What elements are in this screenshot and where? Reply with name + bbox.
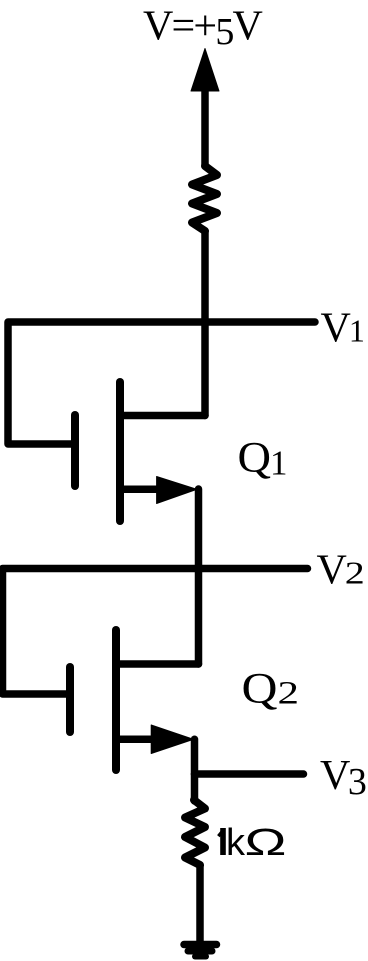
transistor Q2 channel bar bbox=[112, 630, 120, 770]
label V1 bbox=[321, 306, 365, 352]
wire Q1 source to Q2 drain bbox=[195, 489, 203, 664]
transistor Q1 gate bar bbox=[71, 415, 79, 486]
svg-text:2: 2 bbox=[345, 555, 365, 591]
wire resistor R2 to ground bbox=[196, 865, 204, 942]
node V3 wire bbox=[195, 770, 304, 778]
svg-text:Ω: Ω bbox=[245, 822, 287, 864]
label V2 bbox=[317, 548, 365, 594]
resistor R2 1k ohm bbox=[185, 800, 205, 865]
svg-text:Q: Q bbox=[242, 666, 278, 713]
transistor Q2 drain lead bbox=[116, 660, 199, 668]
svg-text:V: V bbox=[317, 548, 347, 594]
svg-text:k: k bbox=[226, 822, 246, 864]
resistor R1 (pull-up) bbox=[192, 166, 217, 231]
node V2 wire and Q2 gate feedback bbox=[3, 569, 308, 695]
wire Q2 source to V3 node bbox=[191, 739, 199, 774]
ground bbox=[184, 945, 217, 957]
svg-text:V1: V1 bbox=[321, 306, 365, 352]
transistor Q2 source lead with arrow bbox=[116, 725, 194, 754]
svg-text:1: 1 bbox=[270, 444, 288, 483]
svg-text:2: 2 bbox=[278, 676, 300, 712]
node V1 wire and Q1 gate feedback bbox=[8, 322, 315, 444]
supply arrow bbox=[191, 49, 219, 166]
wire V3 node to resistor R2 bbox=[191, 774, 199, 801]
svg-text:V=+5V: V=+5V bbox=[143, 4, 263, 54]
transistor Q1 channel bar bbox=[116, 382, 124, 521]
transistor Q1 drain lead bbox=[120, 412, 205, 420]
transistor Q1 source lead with arrow bbox=[120, 477, 197, 504]
wire resistor to Q1 drain bbox=[201, 231, 209, 416]
label Q2 bbox=[242, 666, 300, 713]
supply label V=+5V bbox=[143, 4, 263, 54]
label V3 bbox=[320, 753, 367, 803]
label Q1 bbox=[238, 435, 288, 483]
transistor Q2 gate bar bbox=[66, 667, 74, 732]
svg-text:Q: Q bbox=[238, 435, 272, 482]
label 1k ohm bbox=[218, 822, 286, 864]
svg-text:V3: V3 bbox=[320, 753, 367, 803]
